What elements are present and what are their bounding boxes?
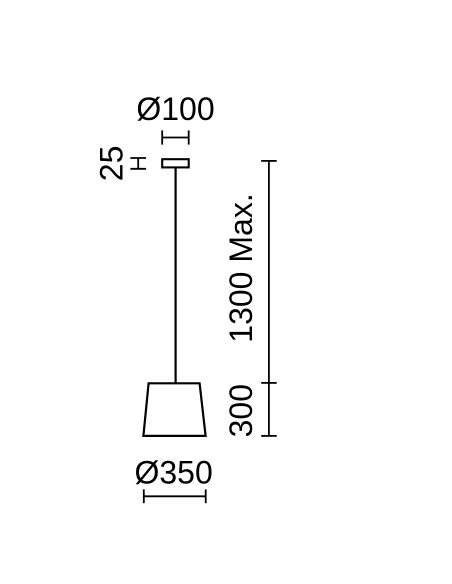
dimension bracket for 25 (vertical with end ticks) (130, 158, 146, 169)
svg-text:1300 Max.: 1300 Max. (223, 193, 259, 342)
svg-text:25: 25 (94, 146, 130, 182)
right dimension line (1300 Max. / 300, vertical with ticks) (261, 161, 277, 436)
svg-text:Ø350: Ø350 (134, 455, 212, 491)
dimension line for Ø100 (horizontal with end ticks) (162, 130, 189, 144)
suspension cable (175, 168, 177, 384)
svg-text:300: 300 (223, 384, 259, 437)
svg-text:Ø100: Ø100 (136, 91, 214, 127)
ceiling canopy (162, 159, 189, 167)
dimension line for Ø350 (horizontal with end ticks) (144, 489, 206, 503)
lamp shade (143, 383, 205, 436)
